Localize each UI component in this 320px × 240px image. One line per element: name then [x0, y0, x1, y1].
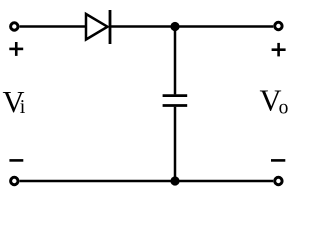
- terminal top-right: [275, 22, 282, 29]
- terminal bottom-right: [275, 177, 282, 184]
- wire: top junction down to capacitor: [174, 27, 177, 95]
- node: top junction dot: [170, 22, 179, 31]
- wire: bottom rail: [20, 180, 274, 183]
- capacitor C1 top plate: [163, 94, 188, 97]
- terminal top-left: [11, 23, 18, 30]
- wire: top-left terminal to diode anode: [20, 25, 86, 28]
- wire: capacitor down to bottom junction: [174, 107, 177, 181]
- polarity minus (input): [9, 159, 23, 162]
- polarity minus (output): [271, 159, 285, 162]
- diode D1 cathode bar: [109, 10, 112, 44]
- svg-text:o: o: [279, 98, 289, 119]
- capacitor C1 bottom plate: [163, 104, 188, 107]
- node: bottom junction dot: [170, 176, 179, 185]
- terminal bottom-left: [11, 177, 18, 184]
- polarity plus (input): [9, 42, 23, 56]
- wire: diode cathode to top-right terminal: [110, 25, 273, 28]
- diode D1 triangle (anode): [86, 14, 108, 40]
- svg-text:i: i: [20, 96, 26, 118]
- polarity plus (output): [272, 43, 286, 57]
